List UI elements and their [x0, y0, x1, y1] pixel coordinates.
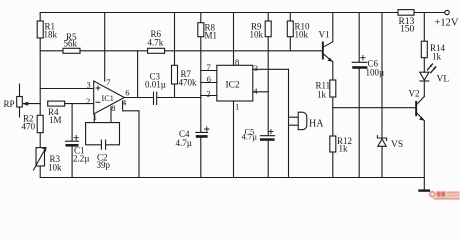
capacitor C1 [66, 104, 90, 178]
svg-text:18k: 18k [44, 30, 58, 40]
wire: net-C (R11 bottom to V2 base) [333, 107, 415, 109]
transistor V1 [319, 13, 333, 81]
ground earth symbol [418, 189, 430, 191]
wire: net-A horizontal (R5 to V1 base) [80, 50, 322, 52]
IC1 pin 1 label [93, 112, 97, 122]
svg-text:4.7k: 4.7k [148, 38, 164, 48]
IC1 pin 8 label [111, 103, 115, 113]
resistor R9 [250, 13, 272, 136]
svg-text:7: 7 [106, 77, 110, 87]
resistor R4 [48, 101, 94, 125]
resistor R7 [172, 13, 198, 98]
wire: IC1 pin3 input wire [40, 88, 93, 90]
resistor R14 [421, 13, 445, 72]
wire: IC1 pin7 line to rail [104, 13, 106, 82]
op-amp IC1 [94, 81, 125, 114]
IC2 pin 3 [253, 63, 289, 73]
wire: IC1 output to C3 [124, 97, 153, 99]
potentiometer RP [4, 84, 41, 117]
wire: IC1 pin4 to ground [123, 101, 139, 178]
resistor R2 [22, 114, 44, 148]
svg-text:1k: 1k [339, 144, 349, 154]
svg-text:1: 1 [235, 102, 239, 112]
svg-text:6: 6 [207, 74, 211, 84]
watermark logo [430, 191, 460, 199]
svg-text:150: 150 [400, 25, 415, 35]
svg-text:VL: VL [437, 75, 450, 85]
wire: R8 net to C4 [200, 96, 202, 133]
svg-text:V2: V2 [409, 89, 420, 99]
resistor R8 [198, 13, 217, 96]
IC2 pin 6 [201, 74, 217, 84]
IC1 pin 6 label [125, 87, 129, 97]
zener diode VS [377, 13, 403, 178]
IC2 pin 4 [253, 86, 268, 96]
svg-text:2: 2 [206, 89, 210, 99]
svg-text:3: 3 [254, 63, 258, 73]
IC2 pin 2 [201, 89, 217, 99]
svg-text:100µ: 100µ [366, 68, 385, 78]
svg-text:7: 7 [207, 62, 211, 72]
resistor R12 [330, 108, 352, 178]
wire: feedback connector net-A to output [137, 51, 139, 98]
svg-text:2.2µ: 2.2µ [73, 154, 89, 164]
svg-text:IC1: IC1 [102, 94, 114, 103]
svg-text:10k: 10k [48, 163, 62, 173]
IC1 pin 2 label [86, 96, 90, 106]
resistor R11 [316, 80, 336, 108]
svg-text:0.01µ: 0.01µ [145, 80, 166, 90]
svg-text:8: 8 [235, 57, 239, 67]
capacitor C6 [352, 13, 384, 178]
svg-text:8: 8 [111, 103, 115, 113]
svg-text:39p: 39p [97, 160, 111, 170]
svg-text:1k: 1k [317, 90, 327, 100]
svg-text:IC2: IC2 [226, 81, 241, 91]
svg-text:470k: 470k [179, 78, 198, 88]
resistor R13 [398, 10, 415, 35]
wire: pin3 wire down to HA and ground [288, 69, 290, 177]
svg-text:470: 470 [22, 122, 36, 132]
svg-text:3: 3 [87, 80, 91, 90]
svg-text:1M: 1M [49, 115, 62, 125]
capacitor C5 [242, 127, 275, 178]
speaker HA [289, 112, 325, 130]
IC2 pin 7 [201, 62, 217, 72]
svg-text:VS: VS [391, 140, 403, 150]
resistor R10 [287, 13, 310, 51]
resistor R5 [40, 32, 80, 53]
svg-text:4.7µ: 4.7µ [176, 138, 192, 148]
capacitor C2 [86, 123, 120, 170]
svg-text:6: 6 [125, 87, 129, 97]
svg-text:1k: 1k [432, 52, 442, 62]
svg-text:56k: 56k [64, 39, 78, 49]
svg-text:10k: 10k [295, 30, 309, 40]
LED VL [420, 64, 450, 85]
svg-text:RP: RP [4, 99, 15, 109]
IC1 pin 4 label [122, 98, 127, 108]
svg-text:V1: V1 [319, 30, 330, 40]
IC2 pin 1 [234, 101, 240, 178]
node +12V terminal [435, 10, 459, 28]
svg-text:M1: M1 [205, 31, 218, 41]
svg-text:HA: HA [309, 119, 324, 130]
capacitor C4 [176, 127, 210, 178]
svg-text:10k: 10k [250, 30, 264, 40]
wire: ground bottom rail [40, 177, 424, 179]
IC2 box [217, 65, 253, 101]
wire: +12V top supply rail [40, 12, 445, 14]
svg-text:2: 2 [86, 96, 90, 106]
wire: left vertical bus (R1 bottom to R2 top) [39, 51, 41, 116]
IC1 pin 3 label [87, 80, 91, 90]
svg-text:1: 1 [93, 112, 97, 122]
IC2 pin 8 [234, 13, 240, 67]
svg-text:4.7µ: 4.7µ [242, 132, 258, 142]
wire: IC1 pin1/pin8 to bottom bar [86, 107, 120, 123]
transistor V2 [409, 81, 425, 190]
svg-text:+12V: +12V [435, 18, 459, 29]
rheostat R3 [34, 148, 63, 178]
svg-text:4: 4 [253, 86, 258, 96]
capacitor C3 [145, 72, 201, 105]
resistor R1 [37, 13, 57, 51]
IC1 pin 7 label [106, 77, 110, 87]
resistor R6 [148, 29, 165, 53]
